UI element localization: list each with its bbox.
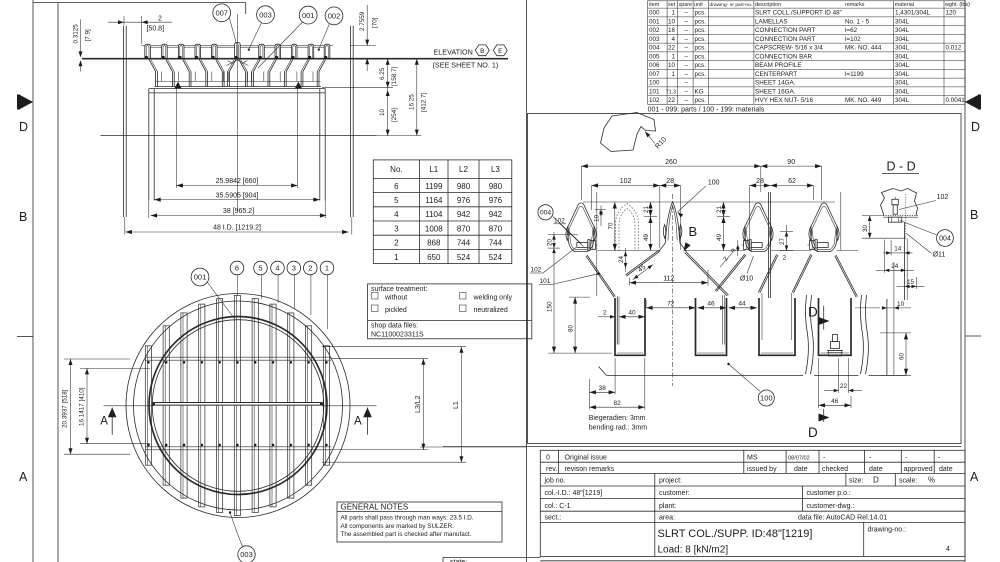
svg-text:0: 0	[546, 455, 550, 462]
svg-text:10: 10	[668, 62, 676, 69]
svg-text:80: 80	[568, 324, 575, 332]
svg-text:0.012: 0.012	[946, 45, 962, 52]
svg-text:004: 004	[939, 236, 951, 243]
svg-text:70: 70	[607, 222, 614, 230]
svg-text:102: 102	[620, 178, 632, 185]
svg-text:A: A	[354, 416, 362, 428]
svg-text:870: 870	[457, 224, 471, 233]
svg-text:D: D	[19, 120, 28, 134]
svg-text:E: E	[498, 48, 503, 55]
svg-text:004: 004	[540, 210, 552, 217]
svg-text:CONNECTION BAR: CONNECTION BAR	[755, 53, 812, 60]
svg-text:25.9842 [660]: 25.9842 [660]	[216, 178, 259, 185]
svg-text:304L: 304L	[895, 80, 910, 87]
svg-text:10: 10	[668, 18, 676, 25]
svg-text:001: 001	[649, 18, 660, 25]
svg-text:NC1100023311S: NC1100023311S	[371, 331, 424, 338]
svg-text:10: 10	[897, 301, 905, 308]
svg-text:744: 744	[457, 239, 471, 248]
svg-text:neutralized: neutralized	[474, 307, 508, 314]
svg-text:L1: L1	[429, 165, 438, 174]
svg-text:62: 62	[788, 178, 796, 185]
svg-text:4: 4	[275, 264, 279, 273]
svg-text:4: 4	[394, 210, 399, 219]
svg-text:100: 100	[708, 179, 720, 186]
svg-text:003: 003	[240, 550, 253, 559]
svg-text:1: 1	[394, 253, 399, 262]
svg-text:–: –	[684, 27, 688, 34]
svg-text:2: 2	[158, 15, 162, 22]
svg-text:976: 976	[489, 196, 503, 205]
svg-text:l=102: l=102	[845, 36, 861, 43]
svg-text:003: 003	[649, 36, 660, 43]
svg-text:0.3125: 0.3125	[73, 24, 80, 44]
svg-text:90: 90	[787, 159, 795, 166]
svg-text:pickled: pickled	[385, 307, 407, 314]
svg-text:10: 10	[594, 214, 601, 222]
svg-text:D: D	[808, 305, 818, 320]
svg-text:5: 5	[394, 196, 399, 205]
svg-text:14: 14	[894, 246, 902, 253]
svg-text:868: 868	[427, 239, 441, 248]
svg-text:007: 007	[215, 9, 228, 18]
svg-text:38: 38	[599, 385, 607, 392]
svg-text:All parts shall pass through m: All parts shall pass through man ways: 2…	[341, 515, 474, 522]
svg-text:pcs.: pcs.	[695, 62, 707, 69]
svg-text:16.1417 [410]: 16.1417 [410]	[79, 387, 86, 426]
svg-text:35.5905 [904]: 35.5905 [904]	[216, 192, 259, 199]
svg-text:Original issue: Original issue	[565, 455, 608, 462]
svg-text:102: 102	[649, 97, 660, 104]
svg-text:MS: MS	[747, 455, 758, 462]
svg-text:All components are marked by S: All components are marked by SULZER.	[341, 523, 455, 530]
svg-text:–: –	[684, 88, 688, 95]
svg-text:rev.: rev.	[546, 466, 557, 473]
svg-text:112: 112	[663, 275, 674, 282]
svg-text:D: D	[873, 476, 879, 485]
svg-text:101: 101	[540, 278, 551, 285]
svg-text:-: -	[938, 455, 941, 462]
svg-text:unit: unit	[694, 2, 703, 8]
svg-text:bending rad.: 3mm: bending rad.: 3mm	[589, 424, 648, 431]
svg-text:006: 006	[649, 62, 660, 69]
svg-text:spare: spare	[679, 2, 693, 8]
svg-text:-: -	[869, 455, 872, 462]
svg-text:1: 1	[671, 71, 675, 78]
svg-text:–: –	[684, 18, 688, 25]
svg-text:260: 260	[665, 159, 677, 166]
svg-text:customer:: customer:	[659, 490, 690, 497]
svg-text:[158.7]: [158.7]	[391, 66, 398, 86]
svg-text:GENERAL NOTES: GENERAL NOTES	[341, 503, 409, 512]
svg-text:date: date	[794, 466, 808, 473]
svg-text:980: 980	[489, 182, 503, 191]
svg-text:date: date	[869, 466, 883, 473]
svg-text:001 - 099: parts / 100 - 199:: 001 - 099: parts / 100 - 199: materials	[648, 107, 765, 114]
svg-text:28: 28	[666, 178, 674, 185]
svg-text:[50.8]: [50.8]	[147, 26, 165, 33]
svg-text:ELEVATION: ELEVATION	[434, 48, 473, 57]
svg-text:304L: 304L	[895, 45, 910, 52]
svg-text:870: 870	[489, 224, 503, 233]
svg-text:21: 21	[716, 205, 723, 213]
svg-text:CONNECTION PART: CONNECTION PART	[755, 36, 815, 43]
svg-text:38 [965.2]: 38 [965.2]	[223, 208, 254, 215]
svg-text:24: 24	[891, 263, 899, 270]
svg-text:101: 101	[649, 88, 660, 95]
svg-text:21: 21	[643, 205, 650, 213]
svg-text:project:: project:	[659, 478, 682, 485]
svg-text:46: 46	[707, 301, 715, 308]
svg-text:002: 002	[328, 12, 341, 21]
svg-text:3: 3	[394, 224, 399, 233]
svg-text:005: 005	[649, 53, 660, 60]
svg-text:job no.: job no.	[544, 478, 566, 485]
svg-text:col.: C-1: col.: C-1	[545, 503, 571, 510]
svg-text:3: 3	[292, 264, 296, 273]
svg-text:[70]: [70]	[372, 17, 379, 28]
svg-text:6.25: 6.25	[379, 67, 386, 80]
svg-text:plant:: plant:	[659, 503, 676, 510]
svg-text:2.7559: 2.7559	[359, 11, 366, 31]
svg-text:issued by: issued by	[747, 466, 777, 473]
svg-text:customer p.o.:: customer p.o.:	[807, 490, 851, 497]
svg-text:304L: 304L	[895, 53, 910, 60]
svg-text:SHEET 16GA.: SHEET 16GA.	[755, 88, 796, 95]
svg-text:CAPSCREW- 5/16 x 3/4: CAPSCREW- 5/16 x 3/4	[755, 45, 823, 52]
svg-text:pcs.: pcs.	[695, 53, 707, 60]
svg-text:30: 30	[862, 224, 869, 232]
svg-text:data file: AutoCAD Rel.14.01: data file: AutoCAD Rel.14.01	[798, 515, 887, 522]
svg-text:10: 10	[379, 108, 386, 116]
svg-text:pcs.: pcs.	[695, 27, 707, 34]
svg-text:20: 20	[547, 238, 554, 246]
svg-text:CENTERPART: CENTERPART	[755, 71, 797, 78]
svg-text:material: material	[895, 2, 914, 8]
svg-text:B: B	[689, 224, 698, 239]
svg-text:2: 2	[783, 255, 787, 262]
svg-text:22: 22	[668, 45, 676, 52]
svg-text:102: 102	[554, 217, 565, 224]
svg-text:No. 1 - 5: No. 1 - 5	[845, 18, 870, 25]
svg-text:1164: 1164	[425, 196, 443, 205]
svg-text:LAMELLAS: LAMELLAS	[755, 18, 788, 25]
svg-text:-: -	[905, 455, 908, 462]
svg-text:46: 46	[831, 398, 839, 405]
svg-text:surface treatment:: surface treatment:	[371, 286, 427, 293]
svg-text:007: 007	[649, 71, 660, 78]
svg-text:744: 744	[489, 239, 503, 248]
svg-text:–: –	[684, 36, 688, 43]
svg-text:size:: size:	[849, 478, 863, 485]
svg-text:SLRT COLL./SUPPORT ID 48": SLRT COLL./SUPPORT ID 48"	[755, 10, 842, 17]
svg-text:6: 6	[235, 264, 239, 273]
svg-text:20.3937 [518]: 20.3937 [518]	[62, 389, 69, 428]
svg-text:4: 4	[671, 36, 675, 43]
svg-text:–: –	[684, 71, 688, 78]
svg-text:1: 1	[671, 10, 675, 17]
svg-text:650: 650	[427, 253, 441, 262]
svg-text:60: 60	[899, 352, 906, 360]
svg-text:D: D	[971, 120, 980, 134]
svg-text:%: %	[928, 476, 935, 485]
svg-text:304L: 304L	[895, 88, 910, 95]
svg-text:welding only: welding only	[473, 294, 513, 301]
svg-text:48 I.D. [1219.2]: 48 I.D. [1219.2]	[213, 225, 261, 232]
svg-text:28: 28	[756, 178, 764, 185]
svg-text:6: 6	[394, 182, 399, 191]
svg-text:R10: R10	[654, 136, 668, 150]
svg-text:9: 9	[730, 248, 737, 252]
svg-text:pcs.: pcs.	[695, 10, 707, 17]
svg-text:set: set	[668, 2, 676, 8]
svg-text:08/07/02: 08/07/02	[788, 455, 810, 461]
svg-text:approved: approved	[904, 466, 933, 473]
svg-text:Biegeradien: 3mm: Biegeradien: 3mm	[589, 415, 646, 422]
svg-text:524: 524	[489, 253, 503, 262]
svg-text:16: 16	[668, 27, 676, 34]
svg-text:102: 102	[937, 194, 949, 201]
svg-text:72: 72	[667, 301, 675, 308]
svg-text:L3/L2: L3/L2	[415, 395, 422, 413]
svg-text:524: 524	[457, 253, 471, 262]
svg-text:003: 003	[259, 10, 272, 19]
svg-text:pcs.: pcs.	[695, 36, 707, 43]
svg-text:MK. NO. 444: MK. NO. 444	[845, 45, 882, 52]
svg-text:HVY HEX NUT- 5/16: HVY HEX NUT- 5/16	[755, 97, 813, 104]
svg-text:2: 2	[394, 239, 399, 248]
svg-text:SLRT COL./SUPP. ID:48"[1219]: SLRT COL./SUPP. ID:48"[1219]	[658, 528, 813, 540]
svg-text:304L: 304L	[895, 27, 910, 34]
svg-text:pcs.: pcs.	[695, 45, 707, 52]
svg-text:wght. (lbs): wght. (lbs)	[944, 2, 970, 8]
svg-text:(SEE SHEET NO. 1): (SEE SHEET NO. 1)	[433, 60, 499, 69]
svg-text:A: A	[970, 470, 979, 484]
svg-text:[254]: [254]	[391, 108, 398, 122]
svg-text:D - D: D - D	[887, 160, 916, 174]
svg-text:date: date	[939, 466, 953, 473]
svg-text:304L: 304L	[895, 36, 910, 43]
svg-text:MK. NO. 449: MK. NO. 449	[845, 97, 882, 104]
svg-text:22: 22	[840, 383, 848, 390]
svg-text:1: 1	[671, 53, 675, 60]
svg-text:976: 976	[457, 196, 471, 205]
svg-text:item: item	[649, 2, 660, 8]
svg-text:304L: 304L	[895, 18, 910, 25]
svg-text:drawing- or part-no.: drawing- or part-no.	[710, 2, 753, 8]
svg-text:customer-dwg.:: customer-dwg.:	[807, 503, 855, 510]
svg-text:checked: checked	[822, 466, 848, 473]
svg-text:area:: area:	[659, 515, 675, 522]
svg-text:1199: 1199	[425, 182, 443, 191]
svg-text:revison remarks: revison remarks	[565, 466, 615, 473]
svg-text:pcs.: pcs.	[695, 18, 707, 25]
svg-text:CONNECTION PART: CONNECTION PART	[755, 27, 815, 34]
svg-text:scale:: scale:	[899, 478, 917, 485]
svg-text:col.-I.D.: 48"[1219]: col.-I.D.: 48"[1219]	[545, 490, 603, 497]
svg-text:1008: 1008	[425, 224, 443, 233]
svg-text:150: 150	[547, 301, 554, 312]
svg-text:102: 102	[531, 267, 542, 274]
svg-text:A: A	[100, 416, 108, 428]
svg-text:L3: L3	[491, 165, 500, 174]
svg-text:Ø11: Ø11	[933, 252, 946, 259]
svg-text:4: 4	[946, 546, 950, 553]
svg-text:44: 44	[738, 301, 746, 308]
svg-text:Load: 8 [kN/m2]: Load: 8 [kN/m2]	[658, 545, 729, 556]
svg-text:–: –	[684, 10, 688, 17]
svg-text:[412.7]: [412.7]	[420, 92, 427, 112]
svg-text:–: –	[684, 45, 688, 52]
svg-text:drawing-no.:: drawing-no.:	[868, 527, 907, 534]
svg-text:Ø10: Ø10	[740, 276, 753, 283]
svg-text:001: 001	[302, 11, 315, 20]
svg-text:D: D	[808, 425, 818, 440]
svg-text:The assembled part is checked: The assembled part is checked after manu…	[341, 531, 472, 538]
svg-text:B: B	[480, 48, 484, 55]
svg-text:–: –	[684, 97, 688, 104]
svg-text:942: 942	[457, 210, 471, 219]
svg-text:A: A	[19, 470, 28, 484]
svg-text:B: B	[970, 208, 978, 222]
svg-text:980: 980	[457, 182, 471, 191]
svg-text:120: 120	[946, 10, 957, 17]
svg-text:5: 5	[258, 264, 262, 273]
svg-text:–: –	[684, 62, 688, 69]
svg-text:1,4301/304L: 1,4301/304L	[895, 10, 931, 17]
svg-text:82: 82	[613, 400, 621, 407]
svg-text:pcs.: pcs.	[695, 97, 707, 104]
svg-text:2: 2	[308, 264, 312, 273]
svg-text:004: 004	[649, 45, 660, 52]
svg-text:No.: No.	[390, 165, 402, 174]
svg-text:49: 49	[643, 233, 650, 241]
svg-text:–: –	[684, 53, 688, 60]
svg-text:0.0041: 0.0041	[946, 97, 966, 104]
svg-text:l=62: l=62	[845, 27, 858, 34]
svg-text:100: 100	[760, 394, 773, 403]
svg-text:B: B	[19, 210, 27, 224]
svg-text:pcs.: pcs.	[695, 71, 707, 78]
svg-text:15: 15	[907, 279, 915, 286]
svg-text:L2: L2	[459, 165, 468, 174]
svg-text:001: 001	[194, 273, 207, 282]
svg-text:1104: 1104	[425, 210, 443, 219]
svg-text:[7.9]: [7.9]	[85, 29, 92, 42]
svg-text:-: -	[823, 455, 826, 462]
svg-text:without: without	[384, 294, 407, 301]
svg-text:shop data files:: shop data files:	[371, 323, 418, 330]
svg-text:–: –	[684, 80, 688, 87]
svg-text:304L: 304L	[895, 97, 910, 104]
svg-text:SHEET 14GA.: SHEET 14GA.	[755, 80, 796, 87]
svg-text:49: 49	[716, 233, 723, 241]
svg-text:000: 000	[649, 10, 660, 17]
svg-text:100: 100	[649, 80, 660, 87]
svg-text:71.3: 71.3	[666, 89, 676, 95]
svg-text:27: 27	[779, 237, 786, 245]
svg-text:2: 2	[722, 255, 730, 263]
svg-text:sect.:: sect.:	[545, 515, 562, 522]
svg-text:16.25: 16.25	[408, 94, 415, 110]
svg-text:description: description	[755, 2, 781, 8]
svg-text:40: 40	[628, 310, 636, 317]
svg-text:304L: 304L	[895, 71, 910, 78]
svg-text:KG: KG	[695, 88, 704, 95]
svg-text:BEAM PROFILE: BEAM PROFILE	[755, 62, 802, 69]
svg-text:l=1199: l=1199	[845, 71, 864, 78]
svg-text:remarks: remarks	[845, 2, 865, 8]
svg-text:1: 1	[325, 264, 329, 273]
svg-text:2: 2	[603, 310, 607, 317]
svg-text:24: 24	[618, 255, 625, 263]
svg-text:22: 22	[668, 97, 676, 104]
svg-text:942: 942	[489, 210, 503, 219]
svg-text:002: 002	[649, 27, 660, 34]
svg-text:304L: 304L	[895, 62, 910, 69]
svg-text:L1: L1	[453, 401, 460, 409]
